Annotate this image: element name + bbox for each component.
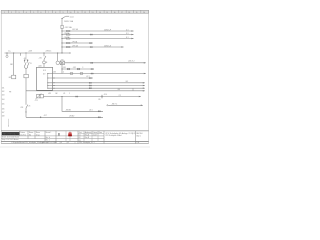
svg-text:Änderung: Änderung: [85, 131, 92, 134]
svg-text:11: 11: [77, 12, 79, 14]
fuse F1: [61, 25, 63, 28]
svg-text:13: 13: [30, 63, 32, 65]
svg-text:Datum: Datum: [93, 131, 98, 134]
wire x26 down: [25, 78, 27, 105]
title block outer bottom line: [1, 143, 148, 145]
svg-text:-1Q1: -1Q1: [70, 16, 74, 18]
svg-text:-1S3: -1S3: [53, 72, 56, 74]
svg-text:-W5 BU: -W5 BU: [69, 115, 74, 117]
pin node 3: [47, 82, 48, 83]
node y96.5 x62: [61, 96, 62, 97]
arrow y90.8: [143, 90, 145, 92]
pin node 5: [47, 88, 48, 89]
switch S3b: [80, 73, 83, 75]
arrow y34.5: [131, 34, 133, 36]
arrow y31: [131, 30, 133, 32]
svg-text:-X1 4: -X1 4: [104, 94, 108, 96]
svg-text:103: 103: [2, 94, 5, 96]
svg-text:17: 17: [121, 12, 123, 14]
wire y82.8: [48, 82, 145, 84]
terminal stub x7: [6, 53, 8, 58]
terminal pair y82.8: [89, 82, 91, 83]
svg-text:-W3: -W3: [48, 93, 51, 95]
terminal pair y117.3: [98, 117, 100, 118]
contact on x26: [26, 105, 28, 112]
fuse F2: [66, 30, 70, 31]
svg-text:-X1 6: -X1 6: [89, 110, 93, 112]
title block rev header line: [78, 132, 104, 134]
svg-text:f3: f3: [56, 142, 57, 144]
svg-text:/2.1: /2.1: [126, 29, 129, 31]
node bus/branch1: [61, 30, 62, 31]
sheet left border: [0, 10, 2, 143]
svg-text:-1F1 10A: -1F1 10A: [65, 26, 73, 29]
left margin wire numbers: [2, 87, 5, 117]
svg-text:108: 108: [2, 115, 5, 117]
svg-text:-X1 7: -X1 7: [44, 115, 48, 117]
company logo bar: [2, 132, 20, 135]
svg-text:f4: f4: [61, 142, 62, 144]
warn mark: [58, 133, 61, 136]
svg-text:-1F4 2A: -1F4 2A: [64, 36, 69, 39]
wire y117.3: [26, 116, 103, 118]
pin node 1: [47, 73, 48, 74]
node y88.2 box edge: [54, 88, 55, 89]
svg-text:1 Bl.: 1 Bl.: [137, 142, 141, 144]
svg-text:5: 5: [33, 12, 34, 14]
svg-text:Rev A: Rev A: [85, 134, 89, 137]
svg-text:1: 1: [4, 12, 5, 14]
title block divider x35: [34, 131, 36, 139]
title block divider x104: [103, 131, 105, 144]
wire branch y34.5: [62, 34, 134, 36]
node rail x62: [61, 52, 62, 53]
red logo: [68, 132, 72, 136]
node x62 y69: [61, 68, 62, 69]
terminal pair y78: [89, 78, 91, 79]
svg-text:Ers. d.: Ers. d.: [46, 136, 51, 139]
terminal pair y88.2: [89, 88, 91, 89]
title block top border: [1, 130, 148, 132]
svg-text:MASCHINENBAU KG: MASCHINENBAU KG: [3, 133, 20, 136]
wire y78: [48, 77, 93, 79]
svg-text:-1K1: -1K1: [8, 77, 11, 79]
wire K1 branch x13.7: [13, 53, 15, 75]
svg-text:/3.1: /3.1: [126, 33, 129, 35]
svg-text:3: 3: [82, 67, 83, 69]
main switch Q1: [61, 16, 69, 19]
svg-text:14: 14: [99, 12, 101, 14]
contact S1b: [27, 60, 29, 68]
svg-text:104: 104: [2, 99, 5, 101]
terminal pair y85.5: [89, 85, 91, 86]
svg-text:Name: Name: [29, 132, 33, 134]
title block divider x19.5: [19, 131, 21, 136]
wire branch y31: [62, 30, 134, 32]
arrow y105.3: [141, 105, 143, 107]
node rail x13.7: [13, 52, 14, 53]
svg-text:102: 102: [2, 91, 5, 93]
node rail x26: [25, 52, 26, 53]
svg-text:+24V: +24V: [28, 50, 33, 52]
indicator circle P1: [56, 61, 60, 65]
wire y88.2: [48, 87, 145, 89]
svg-text:-1F3 2A: -1F3 2A: [64, 32, 69, 35]
svg-text:Ers. f.: Ers. f.: [46, 138, 51, 141]
wire x26 to corner: [25, 112, 27, 117]
title block divider x84: [83, 131, 85, 142]
sheet top band column ticks: [9, 10, 141, 13]
svg-text:18: 18: [128, 12, 130, 14]
PE drop: [8, 119, 9, 127]
svg-text:3B1: 3B1: [10, 64, 13, 66]
wire y90.8: [26, 90, 145, 92]
title block row line y138.6: [1, 138, 104, 140]
solenoid feed vertical x57.7: [57, 53, 59, 61]
svg-text:3: 3: [19, 12, 20, 14]
node bus/branch3: [61, 38, 62, 39]
svg-text:24VDC: 24VDC: [46, 50, 52, 52]
svg-text:12: 12: [84, 12, 86, 14]
svg-text:6: 6: [41, 12, 42, 14]
svg-text:-1F2 2A: -1F2 2A: [72, 28, 79, 31]
svg-text:24VDC-P: 24VDC-P: [104, 29, 112, 31]
jumper x133: [132, 88, 134, 91]
svg-text:03: 03: [79, 140, 81, 142]
valve Y1 body a: [37, 94, 40, 98]
indicator M1 circle: [43, 61, 46, 64]
terminal pair y62.8: [91, 62, 93, 63]
svg-text:21.07: 21.07: [93, 135, 97, 137]
terminal pair y96.5: [76, 96, 78, 97]
svg-text:20.07.11: 20.07.11: [20, 135, 26, 137]
svg-text:101: 101: [2, 87, 5, 89]
svg-text:-1F6 2A: -1F6 2A: [72, 44, 79, 47]
pin rail A1: [47, 74, 49, 89]
node x26 y112: [25, 111, 26, 112]
svg-text:107: 107: [2, 112, 5, 114]
svg-text:/7.2: /7.2: [119, 95, 122, 97]
wire vertical bus x62: [61, 29, 63, 54]
arrow y62.8: [144, 62, 146, 64]
svg-text:DO: DO: [43, 74, 46, 76]
node rail x44: [43, 52, 44, 53]
arrow y73.5: [144, 73, 146, 75]
arrow y82.8: [143, 82, 145, 84]
svg-text:PE: PE: [9, 92, 11, 94]
node y82.8 box edge: [54, 82, 55, 83]
svg-text:M: M: [46, 62, 48, 64]
terminal X1 on y96.5: [101, 95, 102, 99]
title block divider x45: [44, 131, 46, 142]
svg-text:Datum: Datum: [20, 131, 25, 134]
svg-text:8: 8: [55, 12, 56, 14]
sheet right border: [148, 10, 150, 143]
svg-text:105: 105: [2, 103, 5, 105]
svg-text:BK: BK: [56, 93, 58, 95]
node rail x7: [6, 52, 7, 53]
terminal pair y34.5: [90, 34, 92, 35]
svg-text:-1A1: -1A1: [38, 64, 42, 67]
arrow y47: [121, 46, 123, 48]
terminal pair y47: [90, 47, 92, 48]
svg-text:-1K1: -1K1: [39, 57, 42, 59]
svg-text:-W5 BN: -W5 BN: [66, 110, 71, 112]
wire into box A1: [43, 64, 45, 68]
switch S2b: [77, 68, 80, 70]
device box A1: [37, 67, 53, 90]
svg-text:24VDC 10A: 24VDC 10A: [64, 20, 74, 23]
motor feed M1: [44, 53, 46, 61]
svg-text:Mu: Mu: [29, 135, 31, 137]
switch S2a: [67, 68, 70, 70]
svg-text:15: 15: [106, 12, 108, 14]
title block divider x98: [97, 131, 99, 142]
svg-text:f5: f5: [68, 142, 69, 144]
svg-text:23: 23: [29, 106, 31, 108]
wire branch y38.5: [62, 38, 134, 40]
svg-text:13: 13: [92, 12, 94, 14]
terminal pair y111.3: [98, 111, 100, 112]
wire y96.5: [43, 96, 140, 98]
svg-text:4: 4: [26, 12, 27, 14]
svg-text:-1S2: -1S2: [73, 67, 76, 69]
switch S3a: [70, 73, 73, 75]
svg-text:2: 2: [11, 12, 12, 14]
wire y62.8: [65, 62, 146, 64]
wire y73.5: [48, 73, 146, 75]
valve Y1 actuation arrow: [35, 93, 41, 99]
page bottom edge: [0, 146, 150, 148]
title block divider x135.5: [135, 131, 137, 144]
fuse F5: [66, 42, 70, 43]
svg-text:-1F5 2A: -1F5 2A: [72, 40, 79, 43]
svg-text:Ersatz f.: Ersatz f.: [46, 131, 52, 134]
lamp H1: [24, 74, 28, 78]
sheet top band column numbers: [4, 12, 145, 14]
contact S1a: [24, 60, 26, 68]
terminal pair y73.5: [91, 73, 93, 74]
svg-text:/6.2: /6.2: [126, 81, 129, 83]
wire branch y47: [62, 46, 124, 48]
svg-text:DI 8: DI 8: [43, 70, 46, 72]
title block divider x92: [91, 131, 93, 142]
node rail x57.7: [57, 52, 58, 53]
wire S merge: [25, 68, 28, 75]
svg-text:PE: PE: [99, 99, 101, 101]
wire vertical bus x62: [61, 19, 63, 26]
node y78 box edge: [54, 78, 55, 79]
arrow y85.5: [143, 85, 145, 87]
svg-text:7: 7: [48, 12, 49, 14]
terminal y117.3 left: [40, 117, 41, 118]
svg-text:2: 2: [69, 93, 70, 95]
node y62.8 x62: [61, 62, 62, 63]
node bus/branch4: [61, 42, 62, 43]
terminal y105.3: [107, 105, 108, 106]
fuse F6: [66, 46, 70, 47]
node bus/branch5: [61, 46, 62, 47]
svg-text:/4.1: /4.1: [126, 37, 129, 39]
svg-text:-1B1 /5.2: -1B1 /5.2: [128, 61, 135, 63]
svg-text:1L+: 1L+: [8, 50, 11, 52]
svg-text:106: 106: [2, 108, 5, 110]
node bus/branch2: [61, 34, 62, 35]
wire x62 drop: [62, 97, 103, 112]
wire branch y43: [62, 42, 93, 44]
wire +24V rail y53: [5, 52, 71, 54]
pin node 2: [47, 78, 48, 79]
svg-text:24VDC-S: 24VDC-S: [104, 45, 112, 47]
wire y105.3: [108, 104, 143, 106]
arrow y38.5: [131, 38, 133, 40]
coupling box Y0: [60, 61, 64, 65]
svg-text:-2S1: -2S1: [20, 107, 23, 109]
footer dividers: [42, 141, 75, 143]
title block divider x78: [77, 131, 79, 144]
sheet top index band: [1, 10, 148, 13]
svg-text:Nam: Nam: [99, 132, 103, 134]
svg-text:10: 10: [70, 12, 72, 14]
node rail end x70: [69, 52, 70, 53]
svg-text:19: 19: [136, 12, 138, 14]
svg-text:f1: f1: [43, 142, 44, 144]
relay coil K1: [12, 75, 16, 79]
title block divider x56: [55, 131, 57, 142]
title block row line y135.9: [1, 135, 104, 137]
svg-text:-W4 /7.4: -W4 /7.4: [112, 104, 118, 106]
valve Y1 body b: [40, 94, 43, 98]
svg-text:f2: f2: [48, 142, 49, 144]
svg-text:20: 20: [143, 12, 145, 14]
terminal pair y43: [89, 43, 91, 44]
wire vertical x62 mid: [61, 63, 63, 74]
svg-text:-1S1: -1S1: [63, 67, 66, 69]
svg-text:-1Y0: -1Y0: [60, 59, 63, 61]
svg-text:-X1: -X1: [63, 93, 66, 95]
terminal pair y69: [91, 69, 93, 70]
pin node 4: [47, 85, 48, 86]
arrow y88.2: [143, 87, 145, 89]
wire y85.5: [48, 85, 145, 87]
title block divider x28: [27, 131, 29, 139]
title block divider x62: [65, 131, 67, 142]
svg-text:02: 02: [79, 137, 81, 139]
svg-text:9: 9: [63, 12, 64, 14]
title block divider x70: [69, 131, 71, 142]
svg-text:CPU Schaltplan 03-Anlage / 1/1: CPU Schaltplan 03-Anlage / 1/1(F.1): [105, 132, 136, 135]
svg-text:Norm: Norm: [36, 132, 41, 134]
svg-text:BECKH: BECKH: [137, 133, 144, 135]
arrow y96.5: [139, 96, 141, 98]
svg-text:01: 01: [79, 135, 81, 137]
fuse F3: [66, 34, 70, 35]
wire S-branch feed x26: [25, 53, 27, 60]
terminal stub x20.5: [20, 53, 22, 56]
fuse F4: [66, 38, 70, 39]
wire y69: [62, 68, 94, 70]
svg-text:Zust.: Zust.: [79, 131, 83, 134]
svg-text:16: 16: [114, 12, 116, 14]
svg-text:-1Y1: -1Y1: [35, 100, 38, 102]
svg-text:Rev B: Rev B: [85, 137, 89, 139]
title block main bottom line: [1, 140, 148, 142]
node y85.5 box edge: [54, 85, 55, 86]
